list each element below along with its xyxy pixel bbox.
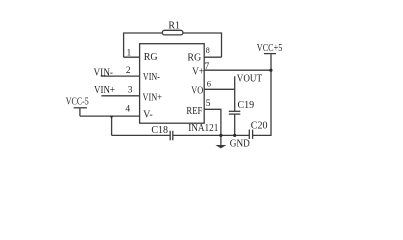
svg-text:V-: V- — [143, 110, 153, 121]
svg-text:1: 1 — [127, 48, 132, 58]
svg-text:VIN-: VIN- — [143, 72, 160, 83]
svg-text:VCC-5: VCC-5 — [66, 96, 89, 107]
svg-text:VIN+: VIN+ — [94, 85, 115, 96]
svg-text:4: 4 — [125, 105, 130, 115]
svg-text:8: 8 — [206, 46, 210, 55]
svg-text:V+: V+ — [192, 67, 204, 78]
svg-text:2: 2 — [126, 66, 131, 76]
svg-text:VIN-: VIN- — [94, 67, 114, 78]
svg-text:C18: C18 — [151, 125, 168, 136]
svg-text:C20: C20 — [251, 121, 268, 132]
svg-text:5: 5 — [206, 99, 211, 109]
svg-text:REF: REF — [186, 106, 202, 117]
svg-text:VIN+: VIN+ — [143, 93, 163, 104]
svg-text:R1: R1 — [168, 21, 180, 32]
svg-text:6: 6 — [207, 79, 211, 89]
svg-text:7: 7 — [205, 62, 210, 72]
svg-text:VO: VO — [191, 85, 203, 96]
svg-text:RG: RG — [144, 52, 158, 63]
svg-text:3: 3 — [128, 86, 133, 96]
svg-text:VOUT: VOUT — [237, 74, 262, 85]
svg-text:RG: RG — [187, 52, 201, 63]
svg-text:C19: C19 — [238, 100, 255, 111]
svg-text:VCC+5: VCC+5 — [257, 43, 283, 54]
svg-text:GND: GND — [230, 139, 250, 150]
svg-text:INA121: INA121 — [188, 123, 218, 134]
